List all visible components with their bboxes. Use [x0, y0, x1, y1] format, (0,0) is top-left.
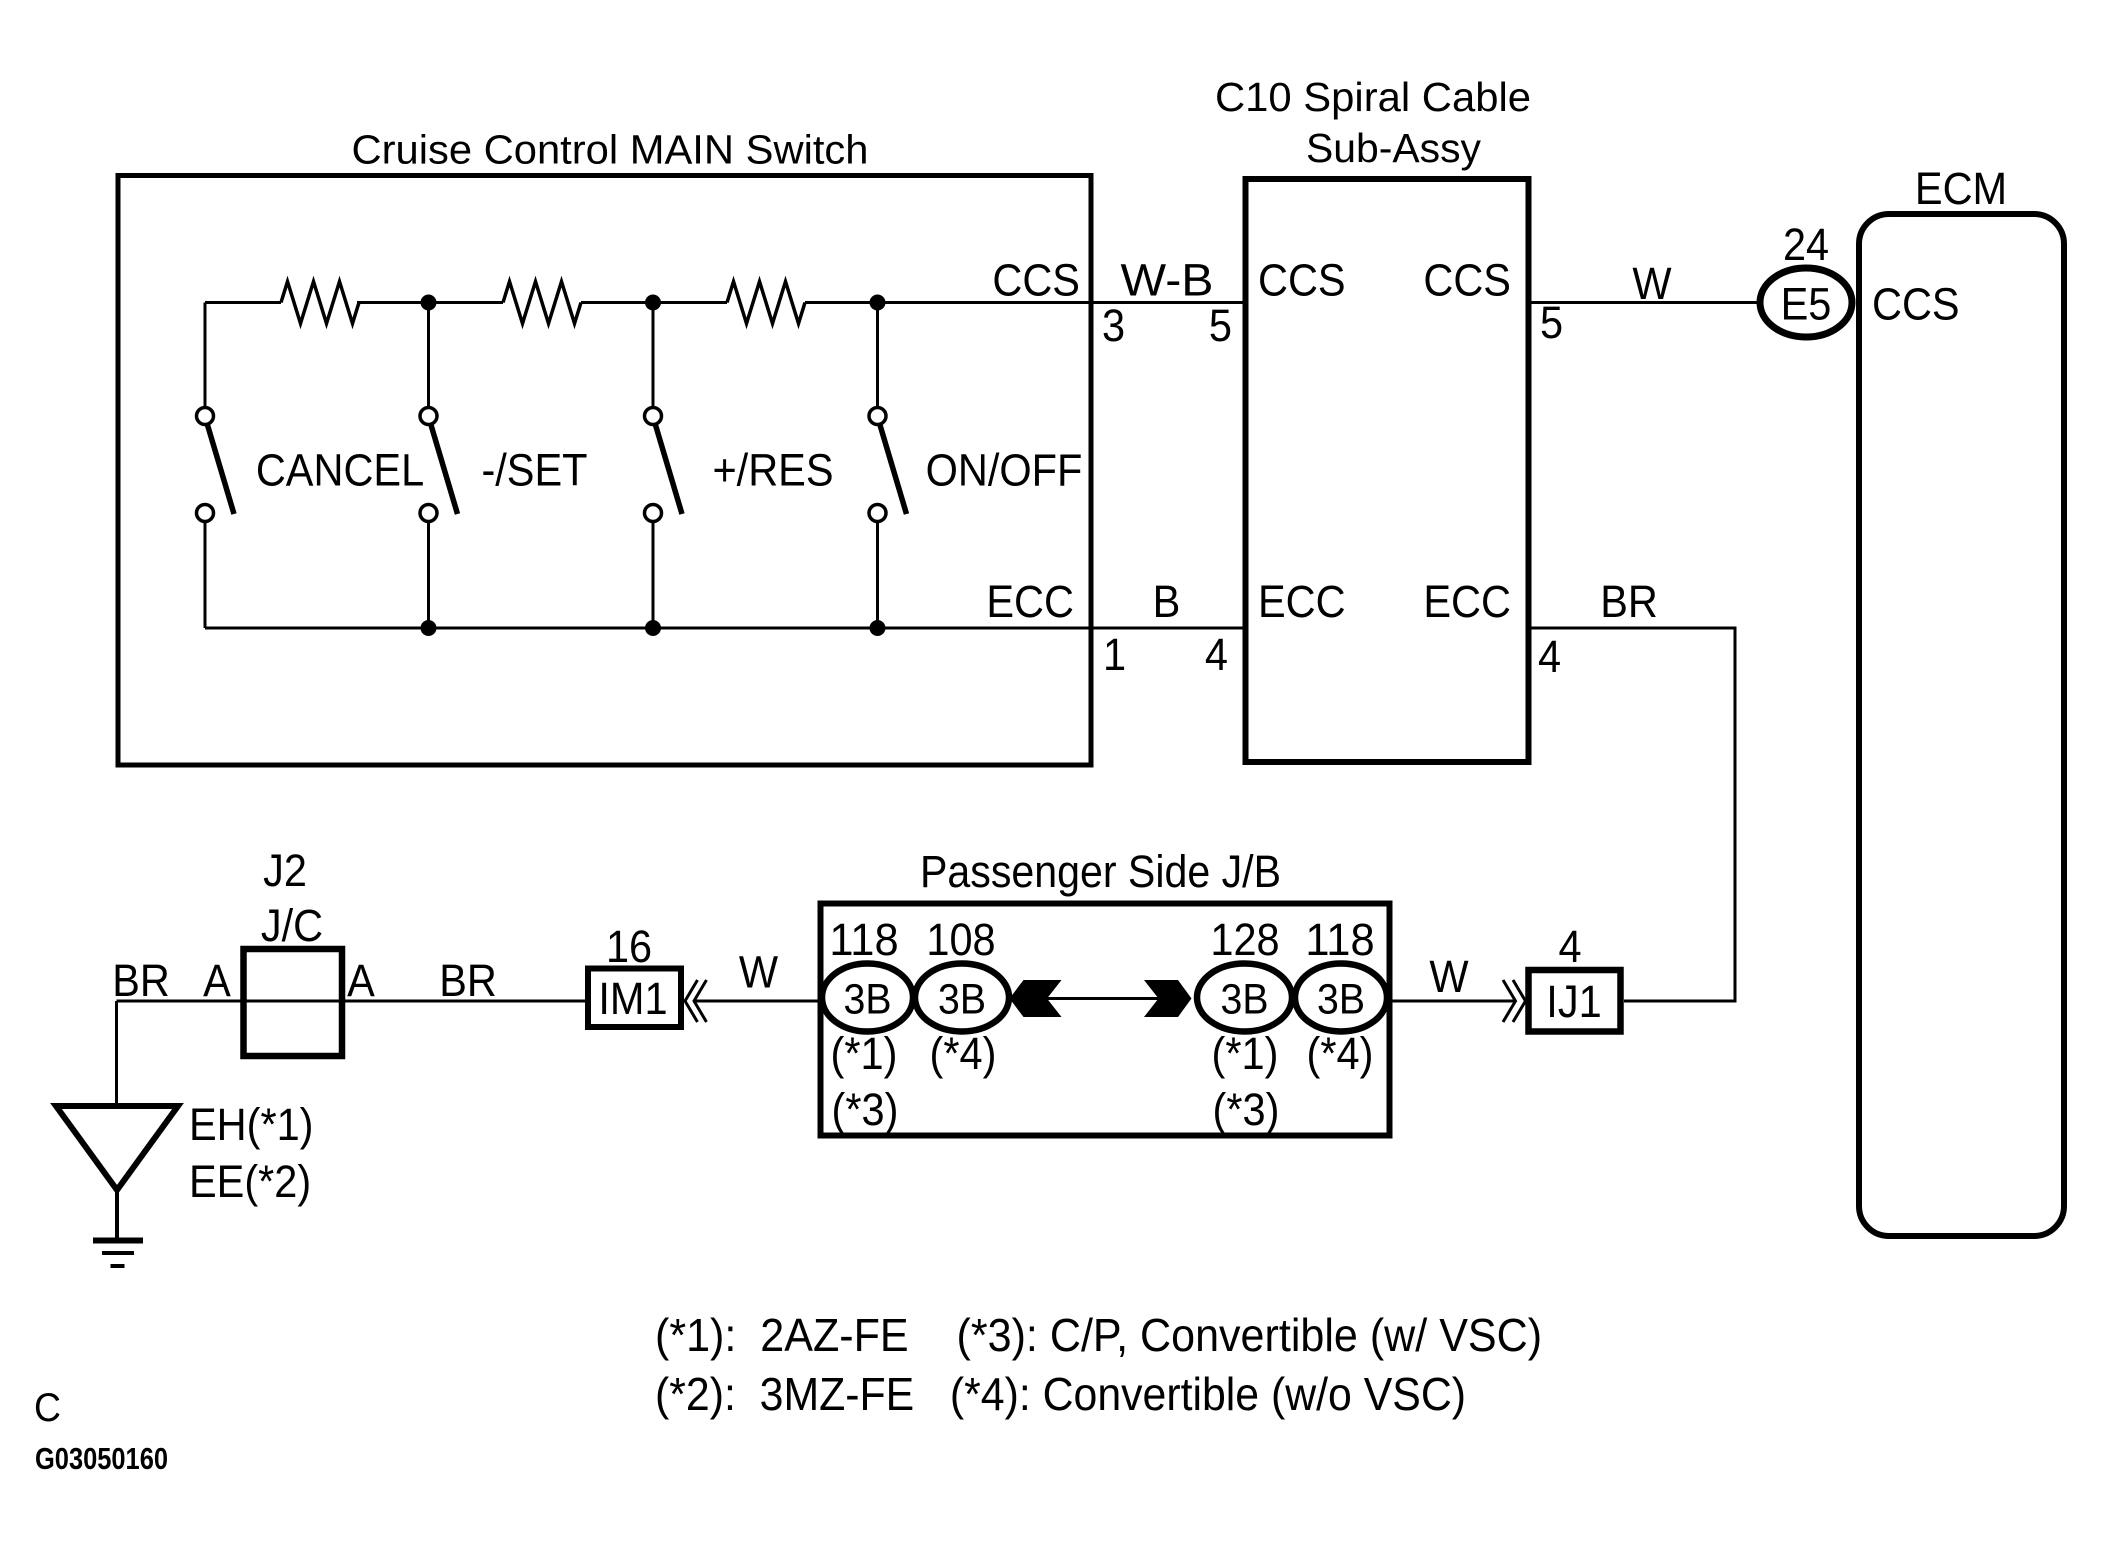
wire: CCS, main switch to C10 (W-B) [1091, 301, 1244, 304]
svg-text:J/C: J/C [261, 900, 323, 951]
svg-text:4: 4 [1205, 629, 1228, 680]
ground bar 2 [102, 1251, 134, 1255]
svg-text:4: 4 [1558, 921, 1581, 972]
junction dot on CCS bus at x=653 [645, 295, 661, 311]
connector IM1 box [588, 969, 681, 1028]
junction dot on ECC bus at x=428.5 [421, 620, 437, 636]
switch -/SET: upper contact circle [420, 408, 437, 425]
wire: CCS bus (top horizontal) inside main switch, y=302.5 [205, 301, 1091, 304]
svg-text:118: 118 [1305, 914, 1374, 965]
junction dot on ECC bus at x=653 [645, 620, 661, 636]
svg-text:Cruise Control MAIN Switch: Cruise Control MAIN Switch [352, 127, 869, 173]
switch +/RES: blade (open) [656, 425, 683, 514]
svg-text:C: C [34, 1386, 61, 1430]
junction dot on CCS bus at x=428.5 [421, 295, 437, 311]
svg-text:5: 5 [1540, 297, 1563, 348]
svg-text:BR: BR [112, 955, 170, 1006]
wire: vertical drop to ground symbol [115, 1001, 118, 1106]
svg-text:(*1): (*1) [831, 1028, 898, 1079]
svg-text:BR: BR [1600, 576, 1658, 627]
svg-text:3B: 3B [1317, 976, 1365, 1024]
ground bar 3 [111, 1264, 125, 1268]
svg-text:3: 3 [1102, 300, 1125, 351]
svg-text:CANCEL: CANCEL [256, 445, 424, 496]
svg-text:ON/OFF: ON/OFF [926, 445, 1083, 496]
svg-text:(*2): 3MZ-FE (*4): Converti: (*2): 3MZ-FE (*4): Convertible (w/o VSC) [655, 1368, 1466, 1420]
switch CANCEL: blade (open) [208, 425, 235, 514]
wire: ECC, main switch to C10 (B) [1091, 627, 1244, 630]
svg-text:118: 118 [829, 914, 898, 965]
svg-text:3B: 3B [844, 976, 892, 1024]
connector oval 3B (third) [1197, 964, 1292, 1032]
svg-text:(*1): (*1) [1212, 1028, 1279, 1079]
svg-text:EH(*1): EH(*1) [189, 1099, 314, 1150]
connector oval 3B (second) [915, 964, 1009, 1032]
svg-text:BR: BR [439, 955, 497, 1006]
svg-text:Passenger Side J/B: Passenger Side J/B [920, 846, 1281, 897]
svg-text:ECC: ECC [1423, 576, 1511, 627]
svg-text:5: 5 [1209, 300, 1232, 351]
ECM box (rounded) [1859, 214, 2064, 1236]
ground bar 1 [93, 1238, 143, 1244]
arrow (solid, pointing right) inside J/B [1144, 980, 1192, 1017]
svg-text:ECC: ECC [986, 576, 1074, 627]
svg-text:128: 128 [1210, 914, 1279, 965]
svg-text:W-B: W-B [1121, 255, 1214, 306]
svg-text:CCS: CCS [1258, 255, 1346, 306]
svg-text:3B: 3B [1221, 976, 1269, 1024]
svg-text:CCS: CCS [1423, 255, 1511, 306]
svg-text:3B: 3B [938, 976, 986, 1024]
svg-text:IM1: IM1 [598, 973, 667, 1024]
svg-text:W: W [739, 947, 778, 998]
switch -/SET: blade (open) [431, 425, 458, 514]
svg-text:108: 108 [926, 914, 995, 965]
switch +/RES: vertical stubs [652, 303, 655, 629]
svg-text:C10 Spiral Cable: C10 Spiral Cable [1215, 74, 1531, 120]
connector E5 oval [1760, 268, 1852, 337]
svg-text:A: A [203, 955, 231, 1006]
junction/connector J2 (J/C) box [244, 949, 343, 1056]
Passenger Side J/B box [821, 904, 1390, 1136]
svg-text:E5: E5 [1781, 279, 1832, 330]
svg-text:24: 24 [1783, 219, 1829, 270]
svg-text:IJ1: IJ1 [1546, 976, 1601, 1027]
C10 Spiral Cable Sub-Assy box [1246, 179, 1529, 762]
wire: W from J/B to IJ1 chevrons [1390, 1000, 1515, 1003]
ground stem [115, 1190, 119, 1240]
ground symbol (triangle EH/EE) [56, 1106, 178, 1190]
svg-text:W: W [1429, 951, 1468, 1002]
resistor R2 (between -/SET and +/RES columns) [503, 282, 581, 324]
wire: ground row horizontal BR wire, y=1001 [117, 1000, 586, 1003]
chevrons (connector marks) pointing right before IJ1 [1503, 980, 1526, 1022]
svg-text:CCS: CCS [1872, 279, 1960, 330]
svg-text:-/SET: -/SET [481, 445, 587, 496]
switch ON/OFF: upper contact circle [869, 408, 886, 425]
svg-text:W: W [1632, 258, 1671, 309]
switch ON/OFF: lower contact circle [869, 505, 886, 522]
connector oval 3B (first) [822, 964, 913, 1032]
wire between arrows inside J/B [1045, 997, 1160, 1000]
connector oval 3B (fourth) [1295, 964, 1387, 1032]
arrow (solid, pointing left) inside J/B [1010, 980, 1062, 1017]
switch -/SET: lower contact circle [420, 505, 437, 522]
wire: ECC bus (bottom horizontal) inside main switch, y=628 [205, 627, 1091, 630]
svg-text:1: 1 [1103, 629, 1126, 680]
Cruise Control MAIN Switch enclosure box [118, 176, 1091, 766]
svg-text:Sub-Assy: Sub-Assy [1306, 125, 1481, 171]
switch ON/OFF: blade (open) [880, 425, 907, 514]
svg-text:EE(*2): EE(*2) [189, 1156, 311, 1207]
resistor R3 (between +/RES and ON/OFF columns) [727, 282, 805, 324]
svg-text:G03050160: G03050160 [35, 1441, 168, 1476]
svg-text:(*4): (*4) [930, 1028, 997, 1079]
svg-text:(*4): (*4) [1307, 1028, 1374, 1079]
resistor R1 (between CANCEL and -/SET columns) [281, 282, 359, 324]
svg-text:J2: J2 [263, 845, 307, 896]
switch CANCEL: upper contact circle [197, 408, 214, 425]
svg-text:(*3): (*3) [1213, 1084, 1280, 1135]
connector IJ1 box [1529, 970, 1621, 1032]
switch +/RES: lower contact circle [645, 505, 662, 522]
svg-text:(*1): 2AZ-FE (*3): C/P, Co: (*1): 2AZ-FE (*3): C/P, Convertible (w/ … [655, 1309, 1542, 1361]
svg-text:CCS: CCS [992, 255, 1080, 306]
switch CANCEL: vertical stubs [204, 303, 207, 629]
junction dot on ECC bus at x=877.5 [870, 620, 886, 636]
junction dot on CCS bus at x=877.5 [870, 295, 886, 311]
wire: W from chevrons to Passenger Side J/B [694, 1000, 822, 1003]
svg-text:ECC: ECC [1258, 576, 1346, 627]
switch -/SET: vertical stubs [427, 303, 430, 629]
switch CANCEL: lower contact circle [197, 505, 214, 522]
svg-text:B: B [1153, 576, 1181, 627]
svg-text:ECM: ECM [1915, 163, 2007, 214]
svg-text:(*3): (*3) [832, 1084, 899, 1135]
svg-text:A: A [347, 955, 375, 1006]
svg-text:+/RES: +/RES [712, 445, 833, 496]
svg-text:4: 4 [1538, 631, 1561, 682]
chevrons (male-female connector marks) pointing left after IM1 [685, 980, 707, 1022]
switch +/RES: upper contact circle [645, 408, 662, 425]
switch ON/OFF: vertical stubs [876, 303, 879, 629]
wire: CCS, C10 to ECM connector E5 (W) [1528, 301, 1759, 304]
svg-text:16: 16 [606, 921, 652, 972]
wire: ECC BR from C10 right to corner, down, then left into IJ1 [1528, 628, 1735, 1001]
